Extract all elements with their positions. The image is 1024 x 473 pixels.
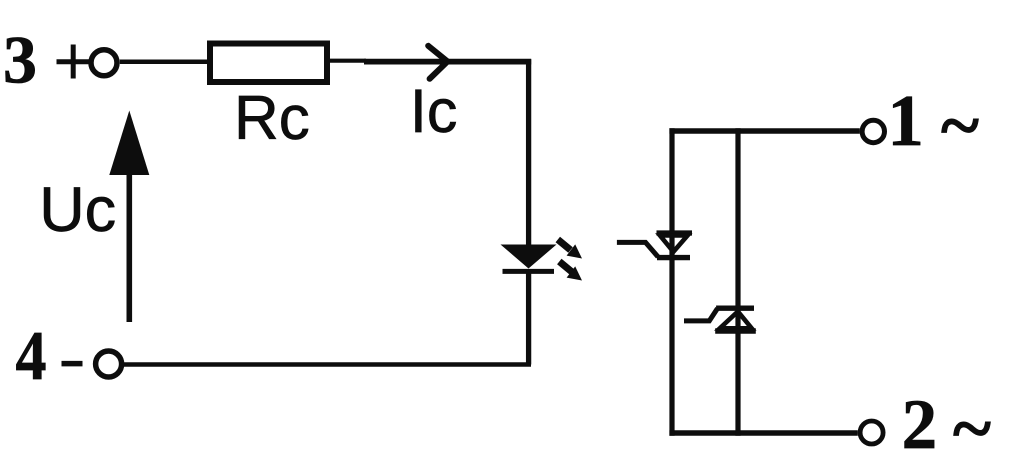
svg-text:~: ~: [941, 85, 979, 166]
svg-text:~: ~: [953, 388, 991, 469]
svg-text:Rc: Rc: [234, 84, 310, 153]
svg-text:3: 3: [3, 22, 37, 98]
svg-text:Ic: Ic: [410, 77, 457, 145]
svg-text:2: 2: [902, 386, 938, 464]
svg-text:1: 1: [887, 80, 924, 161]
svg-text:4: 4: [16, 318, 47, 395]
svg-text:Uc: Uc: [39, 175, 116, 245]
